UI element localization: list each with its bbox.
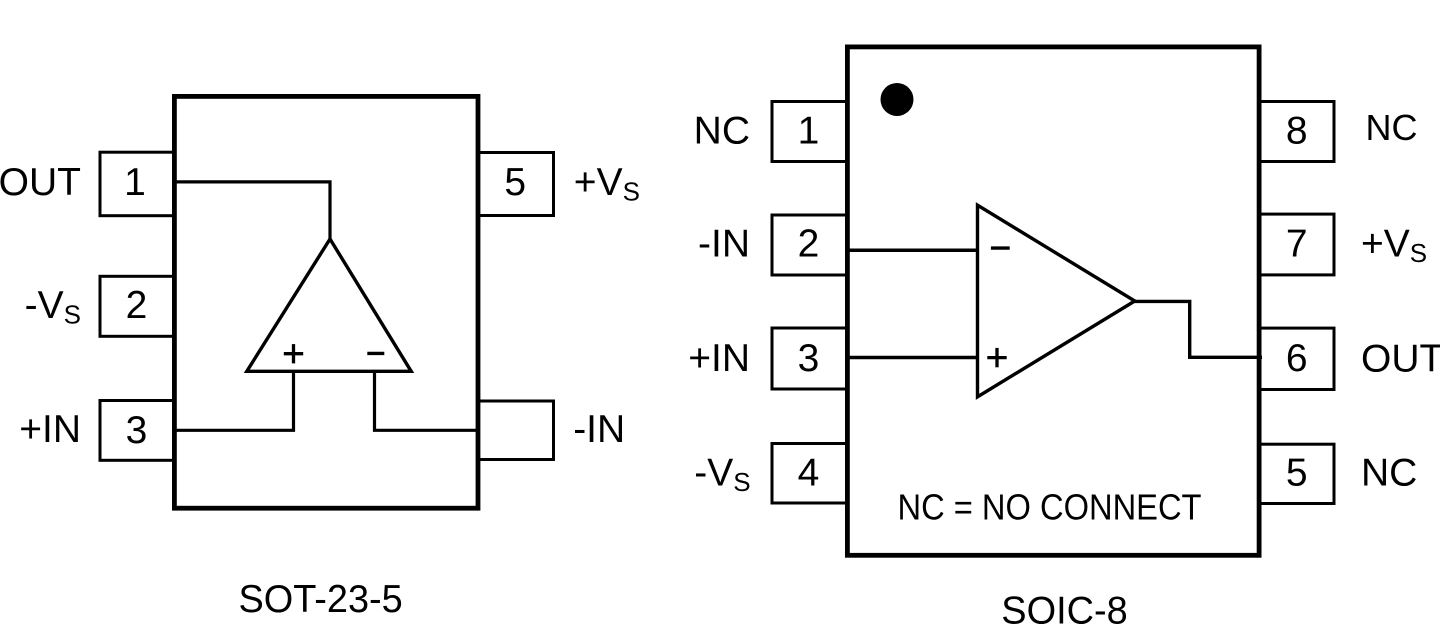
svg-text:6: 6: [1286, 337, 1308, 380]
wire pin1 to op-amp output: [175, 182, 330, 240]
wire pin3 to op-amp +IN: [846, 356, 978, 360]
svg-text:NC: NC: [694, 110, 750, 153]
op-amp U2 (SOIC-8): [978, 205, 1135, 397]
svg-text:OUT: OUT: [1361, 337, 1440, 380]
op-amp U1 (SOT-23-5): [247, 239, 411, 371]
pin 6 box (SOIC-8, OUT): [1260, 328, 1335, 389]
svg-text:1: 1: [798, 110, 820, 153]
svg-text:NC: NC: [1361, 452, 1417, 495]
package body SOIC-8: [847, 47, 1259, 555]
svg-text:-IN: -IN: [698, 223, 750, 266]
minus sign (U2 inverting input): [991, 246, 1010, 249]
svg-text:2: 2: [126, 284, 148, 327]
pin 3 box (SOT-23-5, +IN): [100, 401, 174, 461]
svg-text:OUT: OUT: [0, 161, 81, 204]
pin 2 box (SOT-23-5, -Vs): [100, 276, 174, 336]
svg-text:4: 4: [798, 452, 820, 495]
minus sign (U1 inverting input): [367, 352, 384, 355]
wire pin2 to op-amp -IN: [846, 248, 978, 252]
pin 2 box (SOIC-8, -IN): [772, 215, 847, 275]
svg-text:-IN: -IN: [573, 408, 625, 451]
svg-text:5: 5: [1286, 452, 1308, 495]
svg-text:SOIC-8: SOIC-8: [1001, 590, 1127, 633]
svg-text:3: 3: [798, 337, 820, 380]
svg-text:8: 8: [1286, 110, 1308, 153]
svg-text:2: 2: [798, 223, 820, 266]
svg-text:7: 7: [1286, 223, 1308, 266]
wire op-amp -IN to pin4: [375, 372, 479, 430]
svg-text:+IN: +IN: [688, 337, 750, 380]
wire op-amp output to pin6: [1135, 301, 1263, 357]
pin 1 box (SOIC-8, NC): [772, 102, 847, 162]
pin 4 box (SOIC-8, -Vs): [772, 444, 847, 504]
svg-text:3: 3: [126, 409, 148, 452]
pin 4 box (SOT-23-5, -IN): [477, 401, 554, 460]
pin 5 box (SOT-23-5, +Vs): [477, 153, 554, 216]
plus sign (U2 non-inverting input): [987, 348, 1006, 367]
pin 3 box (SOIC-8, +IN): [772, 328, 847, 389]
pin 8 box (SOIC-8, NC): [1260, 102, 1335, 162]
plus sign (U1 non-inverting input): [284, 344, 303, 363]
svg-text:NC = NO CONNECT: NC = NO CONNECT: [898, 486, 1202, 527]
pin 7 box (SOIC-8, +Vs): [1260, 214, 1335, 275]
pin 1 marker dot: [881, 83, 914, 116]
svg-text:NC: NC: [1366, 107, 1418, 148]
package body SOT-23-5: [174, 96, 478, 508]
wire pin3 to op-amp +IN: [175, 372, 294, 430]
svg-text:5: 5: [504, 161, 526, 204]
svg-text:+IN: +IN: [19, 408, 81, 451]
svg-text:1: 1: [124, 161, 146, 204]
pin 1 box (SOT-23-5, OUT): [100, 152, 174, 216]
svg-text:SOT-23-5: SOT-23-5: [238, 578, 402, 621]
pin 5 box (SOIC-8, NC): [1260, 444, 1335, 503]
